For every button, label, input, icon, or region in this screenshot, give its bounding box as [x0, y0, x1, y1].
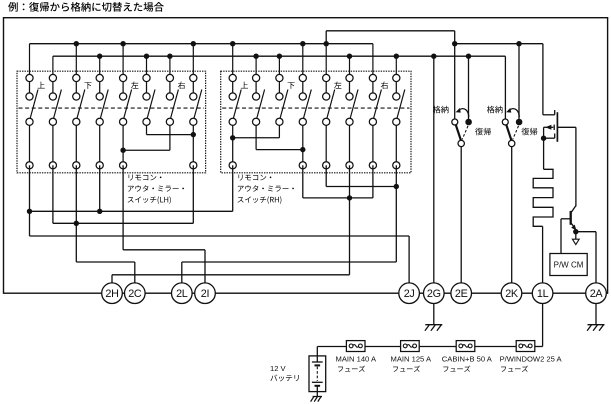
svg-text:1L: 1L — [537, 288, 549, 300]
svg-text:MAIN 140 A: MAIN 140 A — [336, 355, 377, 364]
svg-text:2A: 2A — [590, 288, 604, 300]
svg-text:12 V: 12 V — [270, 364, 287, 373]
svg-text:2H: 2H — [105, 288, 118, 300]
svg-text:P/WINDOW2 25 A: P/WINDOW2 25 A — [500, 355, 563, 364]
svg-text:2L: 2L — [176, 288, 188, 300]
svg-text:2G: 2G — [427, 288, 441, 300]
svg-text:P/W CM: P/W CM — [554, 261, 584, 270]
svg-text:MAIN 125 A: MAIN 125 A — [391, 355, 432, 364]
svg-text:2I: 2I — [201, 288, 209, 300]
svg-text:2C: 2C — [128, 288, 142, 300]
svg-text:2E: 2E — [455, 288, 468, 300]
svg-text:2K: 2K — [505, 288, 519, 300]
svg-text:CABIN+B 50 A: CABIN+B 50 A — [442, 355, 493, 364]
svg-text:2J: 2J — [404, 288, 415, 300]
